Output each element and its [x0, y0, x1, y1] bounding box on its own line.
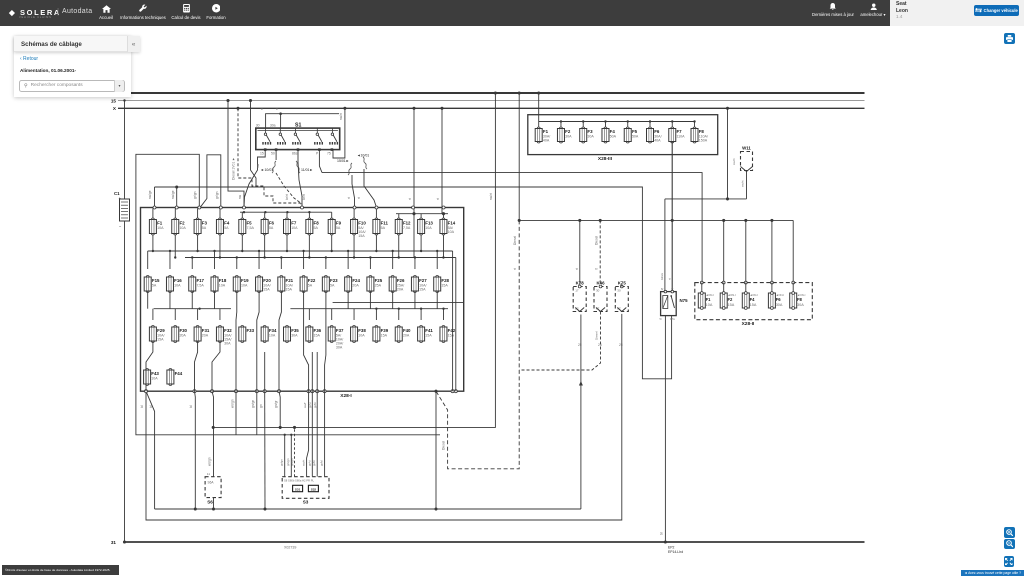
svg-text:bl: bl [149, 405, 153, 408]
fuse F42 [440, 326, 456, 343]
wires rails to row3 tops [153, 309, 444, 320]
svg-text:F23: F23 [330, 278, 338, 283]
X28-I top terminals [153, 206, 445, 209]
svg-text:rt: rt [347, 197, 351, 199]
wire X28-III feed [538, 93, 540, 122]
svg-text:F8: F8 [699, 129, 705, 134]
fuse F3 [194, 218, 207, 235]
svg-text:F6: F6 [776, 297, 782, 302]
svg-text:ws/gn: ws/gn [208, 457, 212, 466]
svg-text:F8: F8 [314, 221, 320, 226]
svg-text:F4: F4 [610, 129, 616, 134]
svg-text:N75: N75 [680, 298, 689, 303]
svg-text:15A: 15A [419, 288, 426, 292]
rail row3 upper right [333, 302, 464, 304]
rail X28-III [539, 121, 695, 123]
svg-text:30: 30 [596, 289, 600, 293]
svg-text:5A: 5A [336, 226, 341, 230]
Changer vehicule button [974, 5, 1019, 16]
wire S1 pinP to line [319, 150, 322, 173]
rail F5-F9 [240, 211, 332, 213]
wire line y172 to X28-II F1 [322, 173, 702, 283]
wire to F10 terminal [352, 175, 355, 208]
wire F2 column drop [176, 187, 178, 208]
bus X [118, 107, 865, 109]
svg-text:Diesel: Diesel [513, 236, 517, 245]
svg-text:7/: 7/ [671, 287, 673, 291]
fuse F14 [440, 218, 456, 235]
wire C1 to bus 31 [124, 221, 126, 542]
svg-text:10A: 10A [174, 284, 181, 288]
svg-text:Diesel: Diesel [442, 441, 446, 450]
svg-text:F4: F4 [224, 221, 230, 226]
fuse F26 [389, 276, 405, 293]
fuse F15 [144, 276, 160, 293]
svg-text:F1: F1 [543, 129, 549, 134]
svg-text:F3: F3 [202, 221, 208, 226]
top navigation bar [0, 0, 890, 26]
svg-text:−: − [119, 224, 122, 229]
svg-text:W11: W11 [742, 145, 751, 150]
svg-text:F2: F2 [565, 129, 571, 134]
svg-text:F7: F7 [676, 129, 682, 134]
fuse F9 [328, 218, 341, 235]
fuse X28-II F1 [698, 281, 714, 309]
svg-text:50A: 50A [632, 135, 639, 139]
wire line520 to K75 [146, 314, 622, 520]
svg-text:rt: rt [575, 268, 579, 270]
fuse F31 [194, 326, 210, 343]
svg-text:15A: 15A [286, 288, 293, 292]
fuse F40 [395, 326, 411, 343]
svg-text:gr/gn: gr/gn [280, 459, 284, 466]
svg-text:gr/br: gr/br [313, 402, 317, 408]
svg-text:F36: F36 [314, 328, 322, 333]
fuse F21 [278, 276, 294, 293]
svg-text:11: 11 [207, 472, 210, 476]
svg-text:25: 25 [619, 343, 623, 347]
wire diag split [146, 391, 155, 509]
user menu [870, 3, 878, 11]
svg-text:F5: F5 [247, 221, 253, 226]
svg-text:10A: 10A [358, 334, 365, 338]
wire K46 coil feed dashed [599, 220, 601, 286]
fuse F41 [418, 326, 434, 343]
wire line509 to K78 [155, 508, 581, 510]
svg-text:F7: F7 [291, 221, 297, 226]
svg-text:F43: F43 [151, 371, 159, 376]
svg-text:rt: rt [436, 198, 440, 200]
fuse F20 [256, 276, 272, 293]
relay K75 [615, 281, 628, 312]
svg-text:15A: 15A [750, 303, 757, 307]
svg-text:10A: 10A [291, 226, 298, 230]
svg-text:20A: 20A [202, 334, 209, 338]
svg-text:15A: 15A [314, 334, 321, 338]
wire S1 pin86s down [298, 150, 302, 208]
svg-text:sw/rt: sw/rt [741, 180, 745, 187]
rail F12-F14 [396, 213, 448, 215]
wire X28-I bottom to line509 [435, 391, 437, 509]
svg-text:17: 17 [575, 289, 579, 293]
wires row1 bottoms to rails [152, 235, 445, 259]
feedback bar [961, 570, 1024, 576]
fuse F7 [284, 218, 299, 235]
svg-text:5A: 5A [152, 284, 157, 288]
wire X28-III F3 top [582, 122, 584, 129]
relay K78 [573, 281, 586, 312]
svg-text:15A: 15A [157, 338, 164, 342]
wire S1 pin15 down [244, 150, 265, 208]
fuse F4 [216, 218, 229, 235]
svg-text:40A: 40A [654, 139, 661, 143]
svg-text:10A: 10A [241, 284, 248, 288]
wires S3 left pins up [284, 435, 286, 477]
svg-text:10A: 10A [219, 284, 226, 288]
fusebox X28-III outline [528, 115, 718, 155]
svg-text:F8: F8 [797, 297, 803, 302]
bell notifications [829, 3, 837, 11]
svg-text:10A: 10A [448, 230, 455, 234]
wires row1 tops [153, 209, 377, 220]
fuse F6 [261, 218, 274, 235]
wire rt from bus X to F14 rail [441, 108, 443, 213]
fuse F33 [239, 326, 255, 343]
svg-text:10A: 10A [157, 226, 164, 230]
wire line y187 to N75 [155, 187, 672, 379]
svg-text:sw/rt: sw/rt [339, 113, 343, 120]
nav Informations techniques [139, 4, 148, 13]
svg-text:F16: F16 [174, 278, 182, 283]
svg-text:F11: F11 [381, 221, 389, 226]
svg-text:gr/bl: gr/bl [320, 460, 324, 466]
svg-text:5A: 5A [314, 226, 319, 230]
wire col down 264 [264, 391, 266, 509]
svg-text:150A: 150A [699, 139, 708, 143]
wire line198 W11 to N75 [665, 198, 747, 200]
svg-text:F13: F13 [425, 221, 433, 226]
svg-text:sw/rt: sw/rt [732, 158, 736, 165]
svg-text:F14: F14 [448, 221, 456, 226]
svg-text:sw/ge: sw/ge [171, 190, 175, 199]
svg-text:F2: F2 [728, 297, 734, 302]
svg-text:S6: S6 [207, 500, 213, 505]
svg-text:20A: 20A [352, 284, 359, 288]
svg-text:110A: 110A [676, 135, 685, 139]
wire C1 to bus 15 [124, 101, 126, 200]
svg-text:F3: F3 [587, 129, 593, 134]
fuse X28-II F2 [720, 281, 736, 309]
fuse F3 [580, 127, 595, 143]
rail row3 feed left [154, 308, 231, 310]
svg-text:F18: F18 [219, 278, 227, 283]
zoom in button [1004, 527, 1015, 538]
svg-text:5A: 5A [330, 284, 335, 288]
wires row3 bottoms to box bottom [146, 341, 317, 391]
wire X28-III F2 top [560, 122, 562, 129]
fuse F36 [306, 326, 322, 343]
svg-text:40A: 40A [543, 139, 550, 143]
svg-text:br/rt: br/rt [285, 194, 289, 200]
svg-text:bl/ws: bl/ws [660, 272, 664, 280]
svg-text:bl: bl [660, 532, 664, 535]
svg-text:15A: 15A [441, 284, 448, 288]
fuse F1 [149, 218, 164, 235]
svg-text:10A: 10A [269, 334, 276, 338]
svg-text:sw: sw [238, 194, 242, 199]
svg-text:30A: 30A [336, 346, 343, 350]
svg-text:F12: F12 [403, 221, 411, 226]
svg-text:30: 30 [256, 124, 260, 128]
wire Diesel feed from bus 30 [518, 93, 520, 220]
fuse F13 [418, 218, 434, 235]
svg-text:15A: 15A [358, 234, 365, 238]
fuse F8 [691, 127, 708, 143]
wire col down 256 [256, 391, 258, 435]
rail row2 feed B [185, 257, 456, 259]
svg-text:25: 25 [598, 343, 602, 347]
fuse F43 [144, 369, 160, 386]
svg-text:rt: rt [357, 197, 361, 199]
wire F1 column [154, 187, 156, 208]
svg-text:F28: F28 [441, 278, 449, 283]
wire X28-III F7 to N75 [671, 142, 673, 292]
svg-text:rt: rt [260, 108, 264, 110]
svg-text:8/: 8/ [661, 287, 663, 291]
switch S1 [256, 122, 340, 149]
svg-text:F44: F44 [175, 371, 183, 376]
svg-text:X: X [113, 106, 117, 111]
svg-text:F27: F27 [419, 278, 427, 283]
svg-text:F1: F1 [706, 297, 712, 302]
svg-text:30A: 30A [224, 342, 231, 346]
svg-text:20A: 20A [403, 334, 410, 338]
svg-text:EP14-Lhd: EP14-Lhd [668, 550, 683, 554]
svg-text:S31: S31 [295, 487, 301, 491]
wire K78 coil feed [579, 220, 581, 286]
svg-text:15: 15 [260, 152, 264, 156]
left panel [14, 36, 131, 97]
nav Formation [212, 4, 221, 13]
fuse F30 [172, 326, 188, 343]
svg-text:br/rt: br/rt [302, 194, 306, 200]
svg-text:30A: 30A [797, 303, 804, 307]
svg-text:rt: rt [408, 198, 412, 200]
fuse X28-II F6 [768, 281, 784, 309]
relay N75 [660, 287, 689, 321]
X28-I bottom terminals [145, 390, 458, 393]
rail row2 feed A [148, 250, 453, 252]
svg-text:F34: F34 [269, 328, 277, 333]
switch S3 [282, 477, 329, 505]
svg-text:F10: F10 [358, 221, 366, 226]
fuse F6 [647, 127, 662, 143]
svg-text:F6: F6 [269, 221, 275, 226]
wire to S6 [212, 391, 214, 477]
wire X28-III F8 top [694, 122, 696, 129]
svg-text:F39: F39 [381, 328, 389, 333]
fuse F5 [239, 218, 255, 235]
wire from bus 15 junction [251, 101, 257, 187]
wire S6 bottom [213, 498, 215, 509]
svg-text:F17: F17 [196, 278, 204, 283]
svg-text:20A: 20A [179, 334, 186, 338]
wire X28-III F1 top [538, 122, 540, 129]
wire col down 236 [235, 391, 237, 435]
svg-text:31: 31 [111, 540, 117, 545]
svg-text:15A: 15A [728, 303, 735, 307]
svg-text:F26: F26 [397, 278, 405, 283]
vehicle info [896, 1, 907, 7]
wire S1 pin75 loop to bus X [333, 108, 345, 158]
fuse F34 [261, 326, 277, 343]
svg-text:5A: 5A [202, 226, 207, 230]
svg-text:gn: gn [259, 404, 263, 408]
wire Diesel 1V01 dashed [238, 108, 302, 207]
expand button [1004, 556, 1015, 567]
svg-text:gr/gn: gr/gn [193, 191, 197, 199]
fuse F22 [300, 276, 316, 293]
svg-text:30A: 30A [587, 135, 594, 139]
svg-text:15/01►: 15/01► [337, 159, 349, 163]
wire col down 279 [279, 391, 280, 427]
rail row3 feed right [290, 308, 448, 310]
wires rails to row2 tops [148, 250, 439, 269]
capacitor C1 [114, 191, 130, 229]
wire Diesel dashed to X28-I [436, 220, 519, 468]
svg-text:gr/gn: gr/gn [215, 191, 219, 199]
svg-text:S3: S3 [303, 500, 309, 505]
fuse F2 [172, 218, 187, 235]
svg-text:F21: F21 [286, 278, 294, 283]
svg-text:gr/br: gr/br [312, 460, 316, 466]
svg-text:gr/vi: gr/vi [308, 402, 312, 408]
fuse F29 [149, 326, 165, 343]
fuse F7 [669, 127, 685, 143]
svg-text:rt: rt [275, 108, 279, 110]
svg-text:gn/gr: gn/gr [274, 400, 278, 408]
fuse F35 [284, 326, 300, 343]
svg-text:sw/f: sw/f [303, 403, 307, 409]
fuse F10 [351, 218, 367, 238]
svg-text:Diesel: Diesel [594, 236, 598, 245]
wire X28-III F6 top [649, 122, 651, 129]
nav Accueil [102, 5, 111, 13]
svg-text:7,5A: 7,5A [247, 226, 255, 230]
svg-text:F30: F30 [179, 328, 187, 333]
wire X28-III F4 top [604, 122, 606, 129]
bus 15 [118, 100, 865, 102]
fuse F11 [373, 218, 389, 235]
fusebox X28-II outline [695, 283, 813, 320]
wire loop2 [201, 155, 221, 208]
svg-text:F25: F25 [375, 278, 383, 283]
svg-text:F4: F4 [750, 297, 756, 302]
fuse F5 [624, 127, 639, 143]
svg-text:15A: 15A [425, 334, 432, 338]
svg-text:EP2: EP2 [668, 546, 675, 550]
svg-text:10A: 10A [706, 303, 713, 307]
svg-text:F9: F9 [336, 221, 342, 226]
fuse F23 [322, 276, 338, 293]
svg-text:ws/gn: ws/gn [231, 399, 235, 408]
svg-text:F32: F32 [224, 328, 232, 333]
svg-text:F19: F19 [241, 278, 249, 283]
svg-text:S6A: S6A [208, 481, 215, 485]
fuse F24 [345, 276, 361, 293]
lamp W11 [741, 145, 753, 171]
svg-text:F40: F40 [403, 328, 411, 333]
svg-text:F5: F5 [632, 129, 638, 134]
wire sw/rt from bus 30 [213, 93, 495, 427]
svg-text:bl: bl [189, 405, 193, 408]
svg-text:5A: 5A [308, 284, 313, 288]
svg-text:sw: sw [256, 163, 260, 168]
svg-text:F31: F31 [202, 328, 210, 333]
svg-text:gr/vi: gr/vi [307, 460, 311, 466]
wires row2 F19-F23 long drops [236, 291, 326, 391]
svg-text:86s: 86s [292, 152, 298, 156]
svg-text:►10/01: ►10/01 [261, 168, 273, 172]
svg-text:F42: F42 [448, 328, 456, 333]
fuse F4 [602, 127, 617, 143]
svg-text:X02739: X02739 [284, 546, 296, 550]
zoom out button [1004, 539, 1015, 550]
svg-text:15: 15 [111, 98, 117, 103]
fuse F27 [411, 276, 427, 293]
wire rt from bus X to row2 rail [413, 108, 415, 251]
svg-text:P: P [316, 152, 319, 156]
svg-text:10A: 10A [179, 226, 186, 230]
svg-text:gn/gn: gn/gn [290, 458, 294, 466]
wires S3 bundle [303, 391, 325, 477]
wire bus X to line198 [727, 108, 729, 199]
wire X28-III F7 top [671, 122, 673, 129]
fuse X28-II F4 [742, 281, 758, 309]
wire relay rail y220 [519, 219, 793, 221]
wire X28-III F5 top [627, 122, 629, 129]
svg-text:30A: 30A [776, 303, 783, 307]
svg-text:S32: S32 [311, 487, 317, 491]
fuse F44 [167, 369, 183, 386]
fuse X28-II F8 [790, 281, 806, 309]
svg-text:F35: F35 [291, 328, 299, 333]
copyright bar [2, 565, 119, 576]
svg-text:5A: 5A [381, 226, 386, 230]
svg-text:F15: F15 [152, 278, 160, 283]
svg-text:F22: F22 [308, 278, 316, 283]
fuse F12 [395, 218, 411, 235]
svg-text:X28-II: X28-II [742, 321, 755, 327]
svg-text:X28-III: X28-III [598, 156, 613, 162]
svg-text:F33: F33 [247, 328, 255, 333]
Solera logo [9, 8, 61, 17]
svg-text:25: 25 [578, 343, 582, 347]
fuse F18 [211, 276, 227, 293]
fuse F16 [166, 276, 182, 293]
svg-text:S8 S80b S80a H2 PR PL: S8 S80b S80a H2 PR PL [284, 479, 315, 483]
svg-text:7,5A: 7,5A [196, 284, 204, 288]
svg-text:bl: bl [140, 405, 144, 408]
fuse F19 [233, 276, 249, 293]
fuse F8 [306, 218, 319, 235]
svg-text:30A: 30A [291, 334, 298, 338]
svg-text:F2: F2 [179, 221, 185, 226]
svg-text:10A: 10A [151, 377, 158, 381]
svg-text:F29: F29 [157, 328, 165, 333]
wire F31 col down [194, 391, 197, 509]
svg-text:50A: 50A [610, 135, 617, 139]
